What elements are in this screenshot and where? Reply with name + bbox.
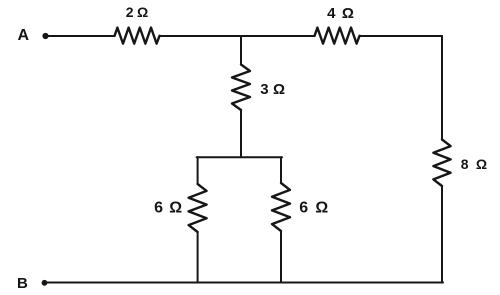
resistor R1 zigzag 2 ohm: [115, 28, 160, 44]
svg-text:6Ω: 6Ω: [299, 200, 328, 217]
svg-text:8Ω: 8Ω: [461, 156, 487, 172]
svg-text:2Ω: 2Ω: [126, 4, 148, 20]
wire bar to resistor R4b right branch: [280, 157, 282, 183]
horizontal bar node joining parallel branches: [197, 156, 282, 158]
wire R3 down to parallel bar node: [240, 110, 242, 157]
wire top-right corner down to resistor R5: [441, 36, 443, 140]
wire R4a down to bottom wire: [197, 232, 199, 283]
svg-text:6Ω: 6Ω: [154, 200, 182, 217]
node B terminal dot: [42, 280, 48, 286]
node A terminal dot: [42, 33, 48, 39]
resistor R3 zigzag 3 ohm: [232, 65, 250, 111]
svg-text:4Ω: 4Ω: [327, 5, 354, 22]
svg-text:B: B: [17, 275, 28, 292]
wire R1 to junction node and to resistor R2: [160, 35, 315, 37]
svg-text:3Ω: 3Ω: [260, 81, 285, 98]
wire R5 down to bottom-right corner: [441, 186, 443, 283]
wire R4b down to bottom wire: [280, 231, 282, 283]
resistor R4b zigzag right 6 ohm: [272, 183, 290, 231]
bottom wire node B to bottom-right corner: [45, 282, 443, 284]
junction top middle wire down to resistor R3: [240, 36, 242, 65]
wire R2 to top-right corner: [360, 35, 442, 37]
resistor R4a zigzag left 6 ohm: [189, 184, 207, 232]
resistor R2 zigzag 4 ohm: [315, 28, 360, 44]
wire node A to resistor R1: [46, 35, 115, 37]
resistor R5 zigzag 8 ohm: [433, 140, 450, 187]
svg-text:A: A: [18, 27, 30, 44]
wire bar to resistor R4a left branch: [197, 157, 199, 184]
